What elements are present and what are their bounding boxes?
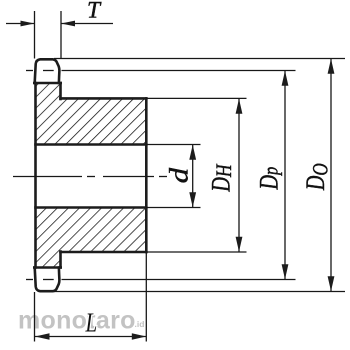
svg-text:L: L [85, 308, 98, 338]
svg-text:T: T [87, 0, 102, 24]
svg-text:Dp: Dp [255, 167, 284, 191]
svg-text:.id: .id [135, 319, 145, 329]
svg-text:d: d [166, 167, 194, 183]
svg-text:monotaro: monotaro [18, 306, 136, 334]
svg-text:DH: DH [207, 163, 236, 192]
